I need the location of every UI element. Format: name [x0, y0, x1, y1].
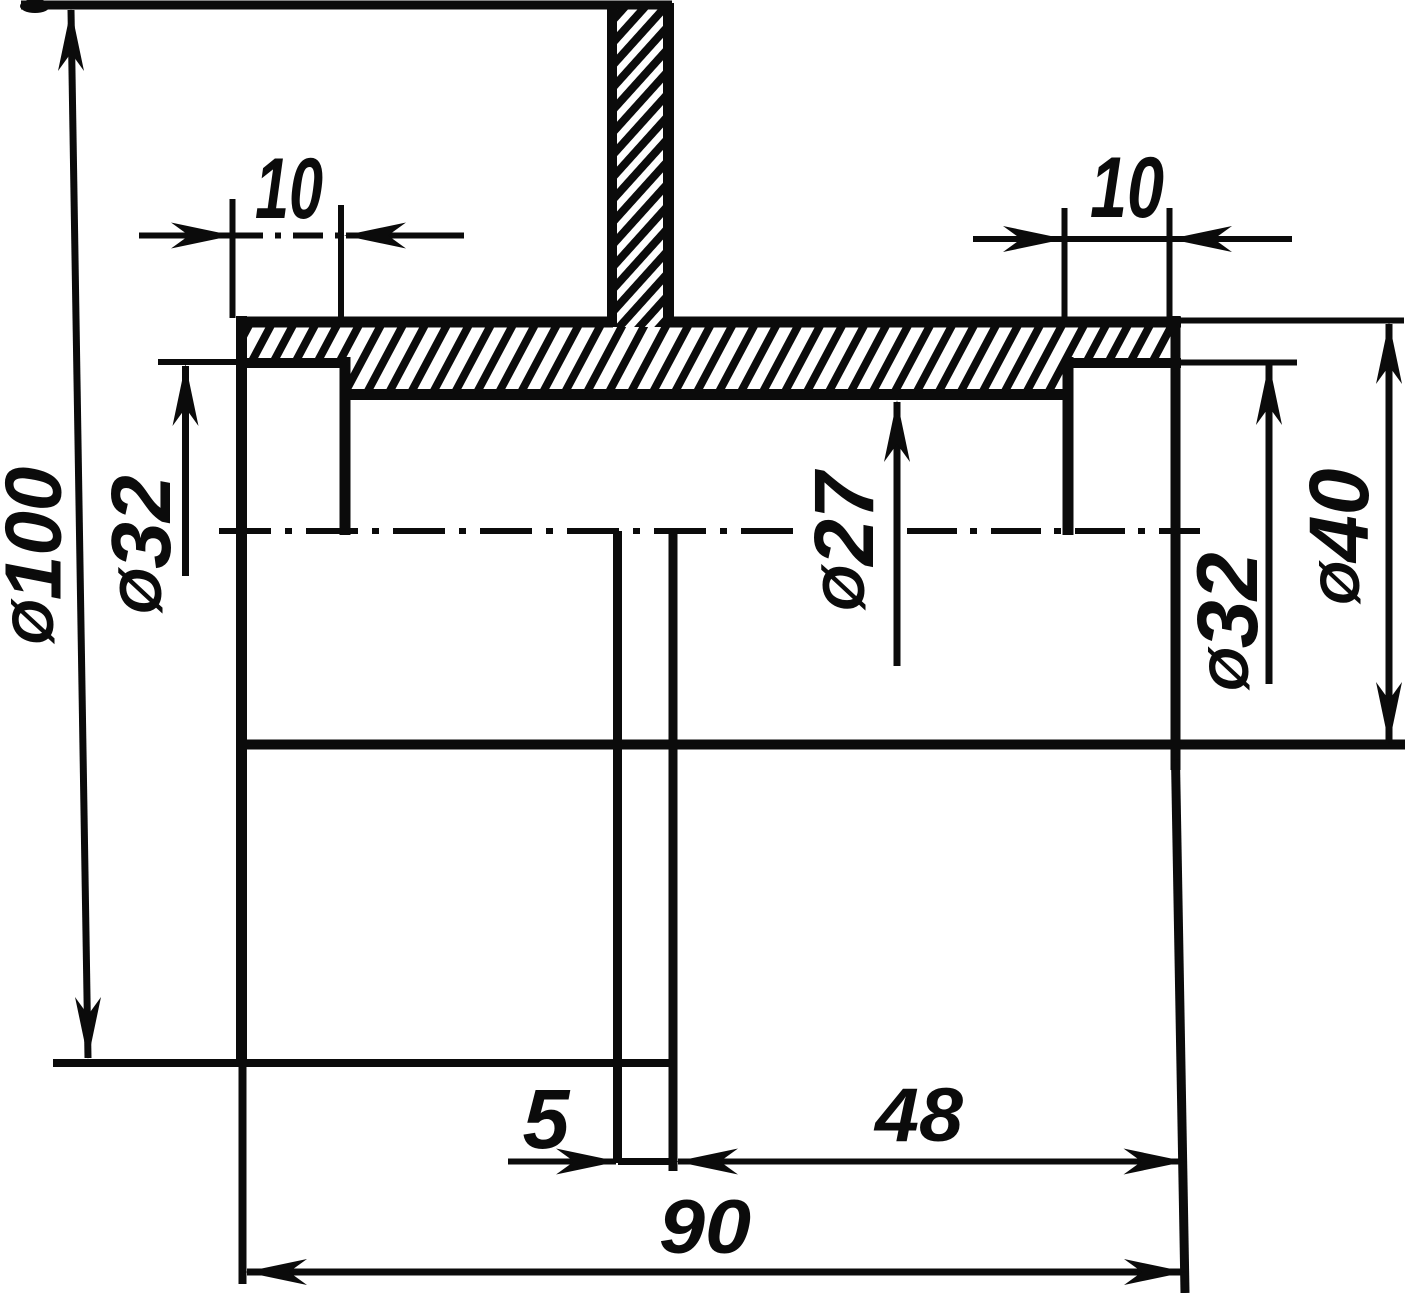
- web right border: [663, 3, 674, 327]
- part top edge / d100 top extension line: [20, 0, 50, 13]
- d40 top extension line: [1181, 318, 1404, 324]
- svg-text:10: 10: [255, 141, 323, 237]
- 90 dimension line: [247, 1269, 1184, 1276]
- counterbore d32 left bottom edge: [236, 358, 350, 368]
- d32 right dimension line: [1266, 364, 1273, 684]
- d32 right extension line: [1181, 360, 1297, 366]
- 10 left dimension line: [139, 233, 231, 239]
- hub outer edge left segment: [236, 317, 613, 328]
- d32 left extension line: [158, 359, 237, 365]
- d40 dimension line: [1386, 324, 1393, 742]
- bore d27 edge: [341, 389, 1073, 400]
- svg-text:10: 10: [1090, 140, 1164, 236]
- hub wall in section (hatched band): [243, 327, 1174, 390]
- svg-text:90: 90: [659, 1185, 751, 1270]
- d32 left dimension line: [182, 366, 189, 576]
- svg-text:Ø32: Ø32: [94, 475, 188, 614]
- web left face lower half: [613, 531, 622, 1163]
- counterbore step left: [340, 357, 351, 535]
- d100 dimension line: [71, 10, 88, 1058]
- 5 / 48 dimension line: [508, 1159, 616, 1165]
- 10 right: extension lines: [1062, 208, 1068, 318]
- svg-text:48: 48: [873, 1073, 964, 1158]
- d27 dimension line: [894, 402, 901, 666]
- centerline (axis): [219, 528, 806, 534]
- web left border: [607, 3, 617, 327]
- svg-text:Ø27: Ø27: [797, 469, 891, 612]
- 10 right dimension line: [973, 236, 1063, 242]
- part right end face edge + extension for 48/90 dims: [1171, 316, 1181, 770]
- counterbore step right: [1063, 357, 1074, 535]
- web/disc upper half in section (hatched bar): [616, 6, 664, 389]
- left end extension line for 90 dim: [239, 1066, 247, 1284]
- hub outer edge right segment: [667, 317, 1181, 328]
- counterbore d32 right bottom edge: [1063, 358, 1181, 368]
- svg-text:5: 5: [523, 1072, 571, 1166]
- 10 left: extension lines: [230, 199, 236, 318]
- web right face lower half: [669, 531, 678, 1171]
- part left end face edge: [236, 316, 247, 1060]
- disc bottom edge / d100 bottom extension line: [53, 1059, 677, 1067]
- hub bottom edge / d40 bottom extension line: [241, 740, 1405, 750]
